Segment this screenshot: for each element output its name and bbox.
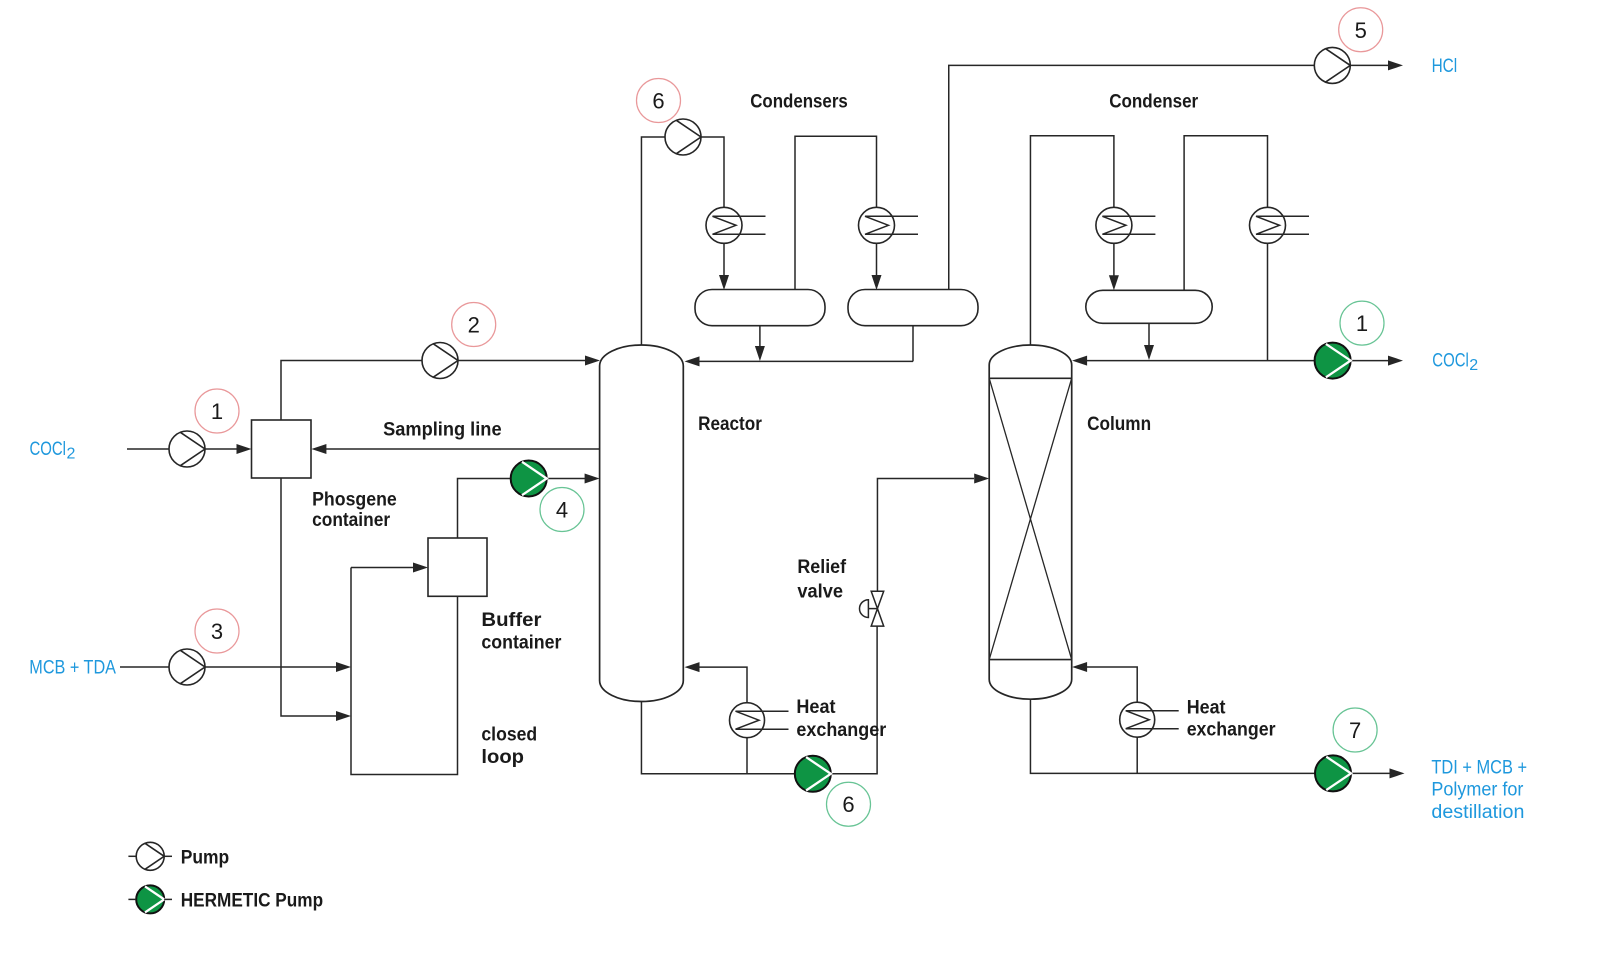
svg-text:Phosgene: Phosgene [312, 490, 397, 511]
svg-text:container: container [481, 633, 562, 654]
svg-text:container: container [312, 510, 391, 531]
svg-text:Condensers: Condensers [750, 92, 848, 113]
svg-text:Heat: Heat [1187, 697, 1226, 718]
svg-text:COCl: COCl [1432, 350, 1469, 371]
svg-text:MCB + TDA: MCB + TDA [29, 658, 116, 679]
svg-text:closed: closed [481, 725, 537, 746]
svg-text:7: 7 [1349, 718, 1361, 743]
svg-text:Buffer: Buffer [481, 610, 542, 631]
svg-text:6: 6 [652, 89, 664, 114]
svg-text:2: 2 [468, 313, 480, 338]
svg-text:destillation: destillation [1431, 802, 1524, 823]
svg-text:2: 2 [1469, 357, 1478, 374]
svg-text:1: 1 [211, 399, 223, 424]
svg-text:TDI + MCB +: TDI + MCB + [1431, 758, 1527, 779]
svg-text:5: 5 [1355, 18, 1367, 43]
svg-text:HERMETIC Pump: HERMETIC Pump [181, 890, 323, 911]
svg-text:COCl: COCl [30, 439, 67, 460]
svg-text:Pump: Pump [181, 847, 230, 868]
svg-text:Column: Column [1087, 414, 1151, 435]
svg-text:3: 3 [211, 619, 223, 644]
svg-text:Reactor: Reactor [698, 414, 762, 435]
svg-text:Polymer for: Polymer for [1431, 780, 1524, 801]
svg-text:Heat: Heat [796, 697, 836, 718]
svg-text:Sampling line: Sampling line [383, 420, 502, 441]
svg-text:4: 4 [556, 498, 568, 523]
svg-text:loop: loop [481, 747, 524, 768]
svg-text:exchanger: exchanger [1187, 720, 1276, 741]
svg-text:HCl: HCl [1432, 56, 1458, 77]
svg-text:1: 1 [1356, 311, 1368, 336]
svg-text:2: 2 [67, 446, 76, 463]
svg-text:valve: valve [797, 582, 843, 603]
svg-text:Condenser: Condenser [1109, 92, 1199, 113]
svg-text:exchanger: exchanger [796, 720, 886, 741]
svg-text:Relief: Relief [797, 557, 846, 578]
svg-text:6: 6 [842, 792, 854, 817]
